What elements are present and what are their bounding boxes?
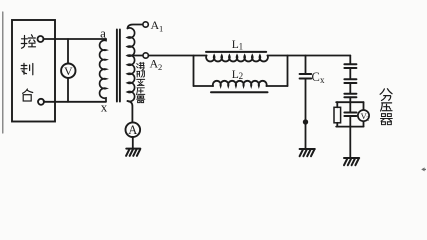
voltmeter V branch wire	[67, 39, 69, 102]
divider capacitor 3	[344, 94, 356, 98]
svg-text:1: 1	[239, 41, 244, 51]
svg-text:2: 2	[158, 62, 162, 72]
wire L1 right to corner	[268, 55, 351, 57]
node: L2 branch left junction	[193, 56, 195, 87]
wire divider to ground	[349, 127, 351, 158]
transformer secondary winding	[128, 28, 135, 102]
L1 core bar	[206, 51, 266, 53]
capacitor Cx branch wire	[305, 56, 307, 74]
wire bottom (terminal to primary)	[44, 101, 106, 103]
stray scan mark: small left arrow	[421, 167, 426, 171]
LV capacitor	[344, 113, 356, 117]
ammeter A	[126, 122, 141, 137]
svg-text:V: V	[64, 64, 73, 78]
capacitor Cx	[300, 74, 312, 79]
svg-text:A: A	[128, 123, 137, 137]
label 制 (zhi)	[21, 63, 33, 74]
terminal A2	[143, 53, 148, 58]
terminal A1	[143, 22, 148, 27]
label 压 (ya)	[381, 103, 392, 111]
terminal bottom	[38, 99, 44, 105]
label 分 (fen)	[380, 89, 392, 101]
inductor L1 (inline coil, bumps down)	[206, 56, 268, 62]
svg-text:2: 2	[366, 116, 369, 122]
voltmeter V	[61, 63, 75, 77]
svg-text:1: 1	[159, 24, 163, 34]
wire top (terminal to primary)	[43, 38, 106, 40]
wire L2 left	[194, 85, 214, 87]
label 控 (kong)	[21, 35, 35, 48]
main HV wire from A2	[148, 55, 206, 57]
ground (divider)	[344, 158, 359, 165]
secondary tap lead to A2	[128, 55, 143, 57]
inductor L2 (bumps up)	[213, 81, 267, 86]
wire L2 right	[267, 85, 288, 87]
resistor (divider LV arm)	[334, 107, 341, 123]
svg-text:C: C	[312, 70, 320, 84]
transformer core	[117, 30, 120, 102]
svg-text:2: 2	[239, 71, 244, 81]
divider top rail	[336, 101, 363, 103]
label 激励变压器 (tiny vertical)	[136, 62, 144, 102]
svg-text:x: x	[320, 75, 325, 85]
svg-text:a: a	[100, 26, 106, 41]
divider bottom rail	[336, 126, 363, 128]
divider column: corner and wire down	[349, 56, 351, 65]
terminal top	[38, 36, 44, 42]
node: L2 branch right junction	[287, 56, 289, 87]
divider capacitor 1	[344, 64, 356, 68]
meter V2	[358, 110, 369, 121]
ground (Cx)	[300, 149, 315, 156]
LV capacitor branch	[349, 102, 351, 126]
label 器 (qi)	[381, 114, 393, 125]
transformer primary winding	[100, 39, 106, 101]
page scan edge artifact	[2, 12, 4, 133]
L2 core bar	[211, 91, 268, 93]
junction dot on Cx branch	[303, 119, 308, 124]
wire ammeter to ground	[132, 137, 134, 148]
meter V2 branch	[363, 102, 365, 126]
secondary bottom lead	[128, 101, 133, 123]
svg-text:x: x	[101, 100, 108, 115]
divider capacitor 2	[344, 79, 356, 83]
wire Cx to ground	[305, 79, 307, 149]
label 台 (tai)	[23, 89, 33, 101]
control console box	[12, 20, 55, 122]
secondary top lead to A1	[128, 25, 143, 29]
ground (ammeter)	[126, 149, 140, 156]
resistor branch	[336, 102, 338, 126]
